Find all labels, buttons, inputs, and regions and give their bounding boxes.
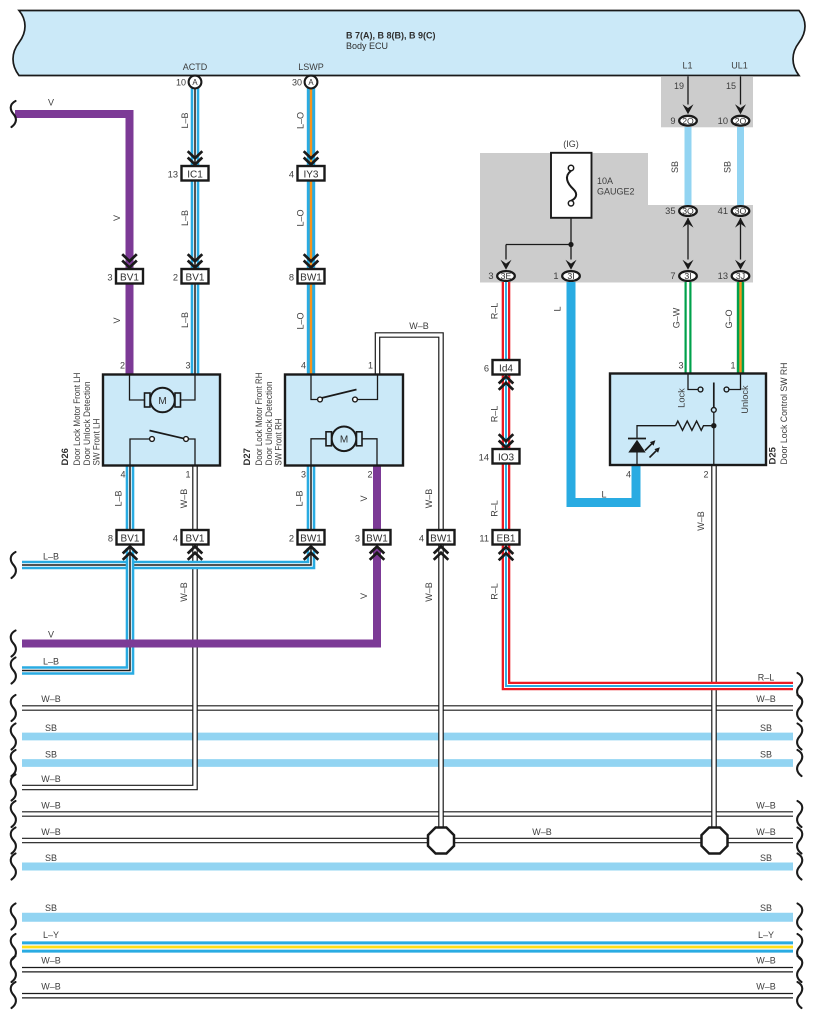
svg-text:13: 13: [168, 169, 178, 179]
svg-text:Door Lock Control SW RH: Door Lock Control SW RH: [779, 362, 790, 464]
svg-text:V: V: [359, 593, 369, 599]
arrow from 3Q pin35 down side: [683, 218, 694, 228]
connector BW1 pin3: [364, 530, 391, 545]
wire L-O from ECU LSWP to connector IY3: [307, 88, 315, 166]
svg-text:W–B: W–B: [756, 956, 776, 966]
svg-text:L: L: [601, 490, 606, 500]
wire L-B from D27 pin 3 to connector BW1 pin2: [307, 465, 316, 530]
arrow into IO3: [499, 434, 514, 447]
svg-text:W–B: W–B: [756, 982, 776, 992]
svg-text:BW1: BW1: [300, 533, 322, 544]
wire from 3Q to 3I left: [687, 218, 689, 260]
svg-text:10: 10: [718, 116, 728, 126]
connector BV1 pin3: [116, 269, 143, 284]
switch of D26: [150, 431, 189, 442]
wire resistor to LED: [637, 426, 676, 438]
svg-text:Unlock: Unlock: [740, 385, 750, 414]
svg-text:SW Front RH: SW Front RH: [274, 418, 285, 465]
svg-text:R–L: R–L: [490, 500, 500, 517]
wire node branch to 3E: [506, 244, 571, 246]
svg-text:3Q: 3Q: [735, 206, 747, 216]
torn edge left SB1: [11, 724, 16, 750]
torn edge right SB1: [797, 724, 802, 750]
torn edge left L-Y: [11, 934, 16, 960]
torn edge left W-B4: [11, 828, 16, 854]
svg-text:BV1: BV1: [186, 272, 205, 283]
svg-text:IY3: IY3: [303, 169, 318, 180]
wire V from connector BW1 pin3 to left edge: [22, 548, 377, 644]
junction connector 3I pin1: [562, 271, 580, 281]
svg-text:3: 3: [678, 361, 683, 371]
torn edge right SB4: [797, 904, 802, 930]
junction connector 3E pin3: [497, 271, 515, 281]
torn edge right R-L: [797, 673, 802, 699]
svg-text:35: 35: [665, 206, 675, 216]
svg-text:BV1: BV1: [186, 533, 205, 544]
svg-text:R–L: R–L: [758, 673, 775, 683]
wire V from D27 pin 2 to connector BW1 pin3: [373, 465, 381, 530]
svg-text:R–L: R–L: [490, 583, 500, 600]
svg-text:ACTD: ACTD: [183, 62, 208, 72]
svg-text:8: 8: [289, 272, 294, 282]
wire R-L from junction 3E to connector Id4: [502, 282, 511, 360]
connector BW1 pin4: [428, 530, 455, 545]
svg-text:3I: 3I: [684, 271, 691, 281]
svg-text:2: 2: [367, 470, 372, 480]
svg-text:9: 9: [670, 116, 675, 126]
svg-text:4: 4: [289, 169, 294, 179]
svg-text:SB: SB: [45, 903, 57, 913]
torn edge right W-B6: [797, 982, 802, 1008]
svg-text:L: L: [553, 306, 563, 311]
torn edge right L-Y: [797, 934, 802, 960]
svg-text:D27: D27: [242, 448, 253, 465]
svg-text:L1: L1: [682, 61, 692, 71]
switch block D25 Door Lock Control SW RH: [610, 374, 766, 466]
wire from fuse GAUGE2 to node: [570, 218, 572, 245]
svg-text:2: 2: [120, 361, 125, 371]
torn edge left W-B5: [11, 956, 16, 982]
wire from 3Q to 3J right: [740, 218, 742, 260]
wire W-B from D26 pin 1 to connector BV1 pin4: [192, 465, 198, 530]
wire L-B from ECU ACTD to connector IC1: [191, 88, 200, 166]
junction connector 2Q pin10: [732, 116, 750, 126]
wire W-B bus row 1: [22, 705, 793, 711]
svg-text:SB: SB: [760, 853, 772, 863]
svg-text:4: 4: [301, 361, 306, 371]
svg-text:IC1: IC1: [187, 169, 203, 180]
svg-text:A: A: [308, 78, 314, 87]
arrow into EB1 from below: [499, 547, 514, 560]
switch of D27: [318, 390, 358, 402]
svg-text:L–Y: L–Y: [43, 930, 59, 940]
svg-text:4: 4: [419, 533, 424, 543]
arrow into BV1 pin3: [122, 254, 137, 267]
svg-text:30: 30: [292, 78, 302, 88]
arrow from Id4 down side: [499, 377, 514, 390]
connector EB1: [493, 530, 520, 545]
svg-text:3: 3: [488, 271, 493, 281]
wire down to 3E: [505, 245, 507, 260]
wire W-B bus row 3: [22, 811, 793, 817]
wire L-Y bus row: [22, 941, 793, 952]
wire R-L from Id4 to connector IO3: [502, 375, 511, 450]
svg-text:15: 15: [726, 81, 736, 91]
wire V from BV1 pin3 to D26 pin 2: [126, 283, 134, 375]
svg-text:L–B: L–B: [180, 112, 190, 128]
svg-text:Body ECU: Body ECU: [346, 41, 388, 51]
arrow into 2Q pin9: [683, 104, 694, 114]
wire L-B from BV1 to D26 pin 3: [191, 283, 200, 374]
torn edge left SB3: [11, 854, 16, 880]
wire W-B bus row 5: [22, 967, 793, 973]
svg-text:L–B: L–B: [114, 490, 124, 506]
wire SB from 2Q to 3Q left: [685, 127, 692, 205]
wire W-B bus row 4 with joints: [22, 838, 793, 844]
wire L-B from connector BV1 pin8 to left edge: [22, 548, 130, 671]
torn edge left V: [11, 631, 16, 657]
connector BV1 pin4: [182, 530, 209, 545]
wire R-L from IO3 to connector EB1: [502, 464, 511, 531]
junction connector 3I pin7: [679, 271, 697, 281]
torn edge right W-B3: [797, 801, 802, 827]
svg-text:L–O: L–O: [296, 312, 306, 329]
wire W-B from connector BW1 pin4 to ground joint: [438, 545, 444, 832]
connector IY3: [298, 166, 325, 181]
ground joint J2: [702, 828, 728, 854]
svg-text:G–W: G–W: [672, 307, 682, 328]
svg-text:SB: SB: [723, 161, 733, 173]
wire L from junction 3I to D25 pin 4: [571, 282, 636, 503]
svg-text:3: 3: [107, 272, 112, 282]
svg-text:3: 3: [301, 470, 306, 480]
svg-text:2: 2: [289, 533, 294, 543]
torn edge left SB2: [11, 750, 16, 776]
LED inside D25: [628, 439, 660, 466]
arrow into 3I pin1: [566, 260, 577, 270]
svg-text:V: V: [48, 98, 54, 108]
svg-text:L–B: L–B: [43, 552, 59, 562]
torn edge right W-B4: [797, 828, 802, 854]
svg-text:SB: SB: [760, 750, 772, 760]
arrow into BW1 pin4 from below: [434, 547, 449, 560]
svg-text:V: V: [112, 215, 122, 221]
torn edge right SB2: [797, 750, 802, 776]
svg-text:11: 11: [479, 533, 489, 543]
svg-text:B 7(A), B 8(B), B 9(C): B 7(A), B 8(B), B 9(C): [346, 31, 436, 41]
motor M of D27: [326, 427, 362, 452]
arrow into IC1: [188, 151, 203, 164]
junction connector 2Q pin9: [679, 116, 697, 126]
torn edge left L-B: [11, 552, 16, 578]
arrow into 3J pin13: [735, 260, 746, 270]
wire down to 3I: [570, 245, 572, 260]
torn edge left W-B1: [11, 695, 16, 721]
junction block upper gray area: [661, 76, 753, 127]
svg-text:4: 4: [626, 470, 631, 480]
wire G-O from junction 3J to D25 pin 1: [737, 282, 744, 374]
svg-text:D25: D25: [768, 446, 779, 464]
svg-text:10: 10: [176, 78, 186, 88]
torn edge right W-B5: [797, 956, 802, 982]
wire SB from 2Q to 3Q right: [737, 127, 744, 205]
svg-text:M: M: [340, 435, 348, 446]
svg-text:BV1: BV1: [121, 533, 140, 544]
svg-text:L–B: L–B: [43, 657, 59, 667]
svg-text:7: 7: [670, 271, 675, 281]
resistor inside D25: [676, 421, 714, 430]
wire G-W from junction 3I to D25 pin 3: [685, 282, 692, 374]
svg-text:L–B: L–B: [180, 312, 190, 328]
svg-text:BW1: BW1: [366, 533, 388, 544]
svg-text:1: 1: [730, 361, 735, 371]
arrow into 3I pin7: [683, 260, 694, 270]
svg-text:UL1: UL1: [731, 61, 748, 71]
arrow into 3E pin3: [501, 260, 512, 270]
connector IO3: [493, 449, 520, 464]
svg-text:3E: 3E: [501, 271, 512, 281]
wire from ECU UL1 to 2Q: [740, 76, 742, 104]
svg-text:W–B: W–B: [756, 801, 776, 811]
connector BW1 pin2: [298, 530, 325, 545]
svg-text:6: 6: [484, 363, 489, 373]
svg-text:3: 3: [355, 533, 360, 543]
svg-text:4: 4: [120, 470, 125, 480]
node below fuse: [568, 242, 573, 247]
svg-text:SB: SB: [45, 853, 57, 863]
junction connector 3Q pin41: [732, 206, 750, 216]
svg-text:A: A: [192, 78, 198, 87]
svg-text:W–B: W–B: [532, 827, 552, 837]
svg-text:1: 1: [553, 271, 558, 281]
svg-text:EB1: EB1: [497, 533, 516, 544]
wire V from left edge to connector BV1 pin3: [15, 114, 130, 269]
svg-text:L–O: L–O: [296, 209, 306, 226]
svg-text:SB: SB: [760, 723, 772, 733]
junction connector 3Q pin35: [679, 206, 697, 216]
svg-text:SB: SB: [45, 750, 57, 760]
svg-text:BW1: BW1: [300, 272, 322, 283]
svg-text:SB: SB: [760, 903, 772, 913]
svg-text:V: V: [48, 630, 54, 640]
Body ECU banner: [13, 11, 805, 76]
svg-text:8: 8: [108, 533, 113, 543]
svg-text:Lock: Lock: [677, 388, 687, 408]
svg-text:W–B: W–B: [696, 511, 706, 531]
wire W-B bus row 6: [22, 993, 793, 999]
svg-text:SB: SB: [45, 723, 57, 733]
svg-text:Id4: Id4: [499, 363, 513, 374]
node inside D25: [711, 423, 716, 428]
svg-text:BW1: BW1: [430, 533, 452, 544]
svg-text:2Q: 2Q: [735, 116, 747, 126]
svg-text:W–B: W–B: [41, 827, 61, 837]
svg-text:4: 4: [173, 533, 178, 543]
svg-text:L–Y: L–Y: [758, 930, 774, 940]
wire from ECU L1 to 2Q: [687, 76, 689, 104]
arrow into BW1 pin8: [304, 254, 319, 267]
svg-text:2Q: 2Q: [682, 116, 694, 126]
svg-text:2: 2: [703, 470, 708, 480]
svg-text:W–B: W–B: [41, 982, 61, 992]
wire W-B from connector BV1 pin4 to W-B bus stub: [22, 545, 195, 788]
svg-text:W–B: W–B: [41, 694, 61, 704]
wire L-O from IY3 to connector BW1 pin8: [307, 180, 315, 269]
svg-text:L–B: L–B: [295, 490, 305, 506]
wire SB bus row 3: [22, 863, 793, 871]
torn edge left SB4: [11, 904, 16, 930]
arrow into BW1 pin3 from below: [370, 547, 385, 560]
svg-text:D26: D26: [60, 448, 71, 465]
fuse 10A GAUGE2: [551, 153, 592, 218]
arrow into 2Q pin10: [735, 104, 746, 114]
arrow into IY3: [304, 151, 319, 164]
svg-text:3I: 3I: [567, 271, 574, 281]
svg-text:V: V: [359, 495, 369, 501]
connector BV1 pin8 lower: [117, 530, 144, 545]
connector BW1 pin8: [298, 269, 325, 284]
wire W-B from D25 pin 2 to ground joint: [711, 465, 717, 832]
wire SB bus row 4: [22, 913, 793, 922]
wire L-O from BW1 to D27 pin 4: [307, 283, 315, 374]
torn edge left W-B2: [11, 775, 16, 801]
torn edge left W-B6: [11, 982, 16, 1008]
motor block D26 Door Lock Motor Front LH: [103, 375, 220, 466]
svg-text:W–B: W–B: [179, 582, 189, 602]
ECU connector A terminal LSWP: [292, 76, 317, 89]
svg-text:M: M: [158, 396, 166, 407]
svg-text:13: 13: [718, 271, 728, 281]
svg-text:3Q: 3Q: [682, 206, 694, 216]
svg-text:W–B: W–B: [41, 801, 61, 811]
arrow into BV1 pin4 from below: [188, 547, 203, 560]
svg-text:W–B: W–B: [41, 774, 61, 784]
torn edge left L-B2: [11, 658, 16, 684]
svg-text:W–B: W–B: [424, 582, 434, 602]
svg-text:W–B: W–B: [756, 694, 776, 704]
wire SB bus row 1: [22, 733, 793, 741]
wire R-L from connector EB1 to right edge: [506, 545, 793, 686]
svg-text:1: 1: [185, 470, 190, 480]
svg-text:LSWP: LSWP: [298, 62, 324, 72]
svg-text:R–L: R–L: [490, 406, 500, 423]
svg-text:(IG): (IG): [563, 139, 579, 149]
arrow into BW1 pin2 from below: [304, 547, 319, 560]
ground joint J1: [428, 828, 454, 854]
svg-text:19: 19: [674, 81, 684, 91]
svg-text:W–B: W–B: [424, 489, 434, 509]
wire L-B from IC1 to connector BV1 pin2: [191, 180, 200, 269]
arrow from 3Q pin41 down side: [735, 218, 746, 228]
torn edge V wire: [11, 101, 16, 127]
arrow into BV1 pin2: [188, 254, 203, 267]
svg-text:GAUGE2: GAUGE2: [597, 187, 635, 197]
svg-text:L–O: L–O: [296, 112, 306, 129]
svg-text:41: 41: [718, 206, 728, 216]
junction block main gray area: [480, 153, 753, 283]
connector Id4: [493, 360, 520, 375]
motor block D27 Door Lock Motor Front RH: [285, 375, 403, 466]
torn edge left W-B3: [11, 801, 16, 827]
svg-text:L–B: L–B: [180, 210, 190, 226]
wire L-B from D26 pin 4 to connector BV1 pin8: [126, 465, 135, 530]
svg-text:W–B: W–B: [756, 827, 776, 837]
svg-text:SW Front LH: SW Front LH: [92, 418, 103, 465]
svg-text:BV1: BV1: [120, 272, 139, 283]
svg-text:R–L: R–L: [490, 303, 500, 320]
svg-text:3J: 3J: [736, 271, 745, 281]
svg-text:2: 2: [173, 272, 178, 282]
svg-text:G–O: G–O: [724, 309, 734, 328]
svg-text:1: 1: [368, 361, 373, 371]
torn edge right W-B1: [797, 695, 802, 721]
svg-text:3: 3: [185, 361, 190, 371]
svg-text:10A: 10A: [597, 176, 613, 186]
arrow into BV1 pin8 from below: [123, 547, 138, 560]
wire L-B from connector BW1 pin2 to left edge: [22, 548, 311, 565]
svg-text:V: V: [112, 317, 122, 323]
wire SB bus row 2: [22, 759, 793, 767]
connector BV1 pin2: [182, 269, 209, 284]
wire W-B from D27 pin 1 over to connector BW1 pin4: [378, 335, 442, 530]
motor M of D26: [145, 388, 181, 413]
svg-text:IO3: IO3: [498, 452, 515, 463]
svg-text:W–B: W–B: [179, 489, 189, 509]
svg-text:SB: SB: [670, 161, 680, 173]
ECU connector A terminal ACTD: [176, 76, 201, 89]
connector IC1: [182, 166, 209, 181]
svg-text:W–B: W–B: [41, 956, 61, 966]
svg-text:W–B: W–B: [409, 321, 429, 331]
junction connector 3J pin13: [732, 271, 750, 281]
torn edge right SB3: [797, 854, 802, 880]
svg-text:14: 14: [479, 452, 489, 462]
